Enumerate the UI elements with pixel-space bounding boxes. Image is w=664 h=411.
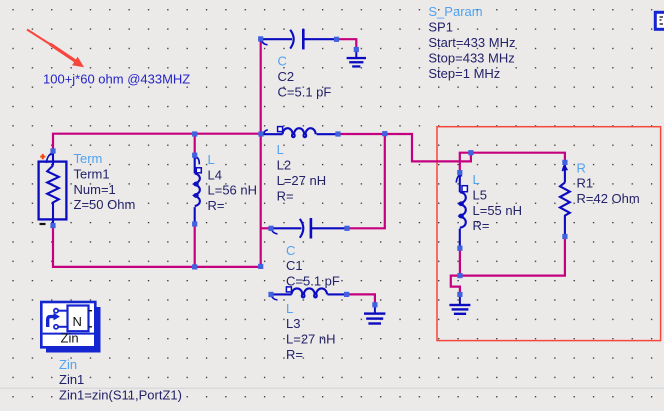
- svg-text:L=56 nH: L=56 nH: [208, 183, 258, 198]
- svg-text:L3: L3: [286, 316, 300, 331]
- svg-text:SP1: SP1: [428, 20, 453, 35]
- svg-text:Zin: Zin: [61, 330, 79, 345]
- svg-text:C1: C1: [286, 258, 303, 273]
- svg-text:C2: C2: [278, 69, 295, 84]
- svg-text:Start=433 MHz: Start=433 MHz: [428, 35, 515, 50]
- svg-text:R=: R=: [277, 188, 294, 203]
- svg-text:C=5.1 pF: C=5.1 pF: [278, 84, 332, 99]
- svg-text:100+j*60 ohm @433MHZ: 100+j*60 ohm @433MHZ: [43, 71, 190, 86]
- svg-text:R=: R=: [208, 198, 225, 213]
- svg-text:L2: L2: [277, 158, 291, 173]
- svg-text:L: L: [473, 172, 480, 187]
- svg-text:L5: L5: [473, 187, 487, 202]
- svg-text:S_Param: S_Param: [428, 4, 482, 19]
- svg-text:Zin1=zin(S11,PortZ1): Zin1=zin(S11,PortZ1): [59, 388, 182, 403]
- svg-text:C: C: [286, 243, 295, 258]
- svg-text:Zin1: Zin1: [59, 372, 84, 387]
- svg-text:C=5.1 pF: C=5.1 pF: [286, 274, 340, 289]
- svg-text:L=55 nH: L=55 nH: [473, 203, 523, 218]
- svg-text:N: N: [73, 314, 82, 329]
- svg-text:L4: L4: [208, 167, 222, 182]
- svg-text:L: L: [277, 142, 284, 157]
- svg-text:R=42 Ohm: R=42 Ohm: [577, 191, 640, 206]
- svg-text:R=: R=: [473, 218, 490, 233]
- svg-text:L=27 nH: L=27 nH: [277, 173, 327, 188]
- svg-text:R: R: [577, 160, 586, 175]
- svg-text:Zin: Zin: [59, 357, 77, 372]
- svg-text:Z=50 Ohm: Z=50 Ohm: [74, 197, 136, 212]
- svg-text:Stop=433 MHz: Stop=433 MHz: [428, 50, 514, 65]
- svg-text:C: C: [278, 54, 287, 69]
- svg-text:L: L: [286, 301, 293, 316]
- svg-text:L: L: [208, 152, 215, 167]
- svg-text:R1: R1: [577, 176, 594, 191]
- svg-text:Step=1 MHz: Step=1 MHz: [428, 66, 500, 81]
- svg-text:Term1: Term1: [74, 166, 110, 181]
- svg-text:L=27 nH: L=27 nH: [286, 332, 336, 347]
- svg-text:Num=1: Num=1: [74, 182, 116, 197]
- svg-text:R=: R=: [286, 347, 303, 362]
- svg-text:Term: Term: [74, 151, 103, 166]
